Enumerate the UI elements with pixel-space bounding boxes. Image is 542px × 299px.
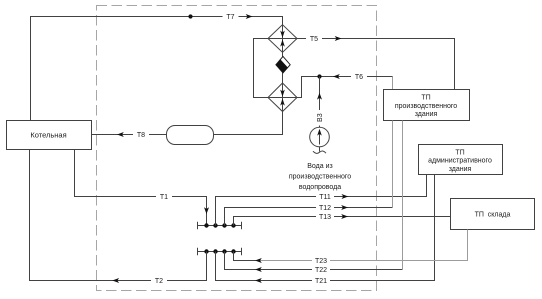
arrow T21 left (255, 278, 262, 283)
heat-point dashed boundary (97, 6, 377, 291)
svg-text:Т2: Т2 (155, 278, 163, 285)
elevator U2 (lower diamond mixer) (268, 83, 297, 112)
label T2 (151, 276, 167, 285)
arrow T6 left (333, 74, 340, 79)
arrow T1 down (204, 207, 209, 214)
svg-text:Т8: Т8 (137, 132, 145, 139)
label B3 (rotated) (316, 110, 325, 126)
pump P1 (circle with up arrow) (310, 127, 330, 147)
label T8 (133, 130, 149, 139)
svg-text:административного: административного (428, 158, 492, 165)
svg-text:Т5: Т5 (310, 36, 318, 43)
wire T12 manifold to industrial HP (225, 121, 393, 226)
label T1 (156, 192, 172, 201)
junction dot T6/make-up (317, 74, 321, 78)
arrow up on B3 riser (317, 93, 322, 100)
arrow T23 left (255, 258, 262, 263)
arrow T12 right (341, 205, 348, 210)
wire T22 industrial HP return (225, 121, 403, 270)
strainer (mud tank capsule) (167, 126, 214, 145)
arrow T8 left (117, 132, 124, 137)
svg-text:ТП: ТП (455, 149, 464, 156)
svg-text:Т23: Т23 (315, 258, 327, 265)
arrow T22 left (255, 267, 262, 272)
wire T13 manifold to warehouse HP (234, 217, 451, 226)
label T6 (351, 72, 367, 81)
svg-text:В3: В3 (317, 113, 324, 122)
svg-text:Т1: Т1 (160, 194, 168, 201)
arrow T11 right (342, 194, 349, 199)
svg-text:производственного: производственного (289, 174, 351, 181)
svg-text:ТП: ТП (421, 95, 430, 102)
label T7 (223, 12, 239, 21)
wire T7 riser and header (boiler supply) (31, 17, 283, 121)
warehouse heat point box (451, 199, 535, 230)
wire T21 administrative HP return (216, 175, 435, 281)
wire T5 to industrial-building HP (297, 39, 455, 90)
arrow T5 right (335, 36, 342, 41)
valve V1 (half-filled diamond) (276, 56, 290, 73)
svg-text:Т7: Т7 (226, 14, 234, 21)
svg-text:Т13: Т13 (319, 214, 331, 221)
administrative building heat point box (419, 145, 503, 175)
return manifold (198, 248, 242, 255)
pipe break symbol below pump (313, 147, 326, 154)
label T5 (306, 34, 322, 43)
supply manifold (198, 222, 242, 229)
svg-text:Т21: Т21 (315, 278, 327, 285)
svg-text:Вода из: Вода из (307, 163, 332, 170)
caption: water from industrial water-main (289, 163, 351, 191)
arrow T13 right (341, 214, 348, 219)
wire T23 warehouse HP return (234, 230, 468, 261)
arrow T2 left (112, 278, 119, 283)
wire T6 from industrial-building HP (297, 77, 393, 98)
svg-text:производственного: производственного (395, 103, 457, 110)
label T11 (316, 192, 334, 201)
wire make-up water riser B3 (319, 77, 321, 128)
label T12 (316, 203, 334, 212)
label T22 (312, 265, 330, 274)
industrial building heat point box (384, 90, 470, 121)
svg-text:Т22: Т22 (315, 267, 327, 274)
svg-text:здания: здания (449, 166, 472, 173)
arrow T7 right (246, 14, 253, 19)
wire T2 return manifold to boiler (30, 150, 207, 281)
svg-text:Котельная: Котельная (30, 131, 66, 140)
wire T1 boiler to supply manifold (75, 150, 207, 226)
wire T11 manifold to administrative HP (216, 175, 427, 226)
svg-text:водопровода: водопровода (299, 184, 341, 191)
label T23 (312, 256, 330, 265)
svg-text:ТП склада: ТП склада (475, 212, 511, 219)
wire elevator U1 to elevator U2 through valve (282, 52, 284, 83)
wire left bypass between elevators (254, 39, 269, 98)
label T21 (312, 276, 330, 285)
boiler box (7, 121, 92, 150)
junction dot on T7 (188, 14, 192, 18)
svg-text:здания: здания (415, 111, 438, 118)
label T13 (316, 212, 334, 221)
wire T8 elevator to strainer to boiler (92, 112, 283, 135)
svg-text:Т12: Т12 (319, 205, 331, 212)
elevator U1 (upper diamond mixer) (268, 25, 297, 53)
svg-text:Т11: Т11 (319, 194, 331, 201)
svg-text:Т6: Т6 (355, 74, 363, 81)
